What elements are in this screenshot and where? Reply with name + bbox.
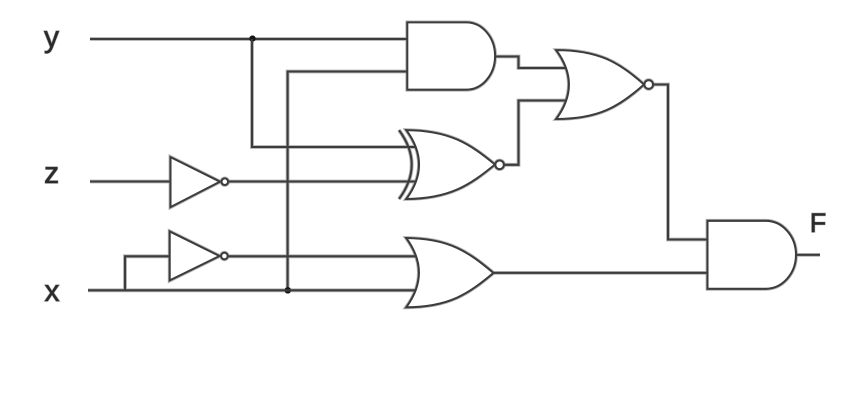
svg-text:x: x	[45, 275, 60, 308]
svg-text:z: z	[44, 157, 59, 190]
schematic halo pass	[88, 22, 820, 307]
svg-text:y: y	[44, 21, 59, 54]
schematic core pass	[88, 22, 820, 307]
svg-text:F: F	[810, 208, 827, 238]
